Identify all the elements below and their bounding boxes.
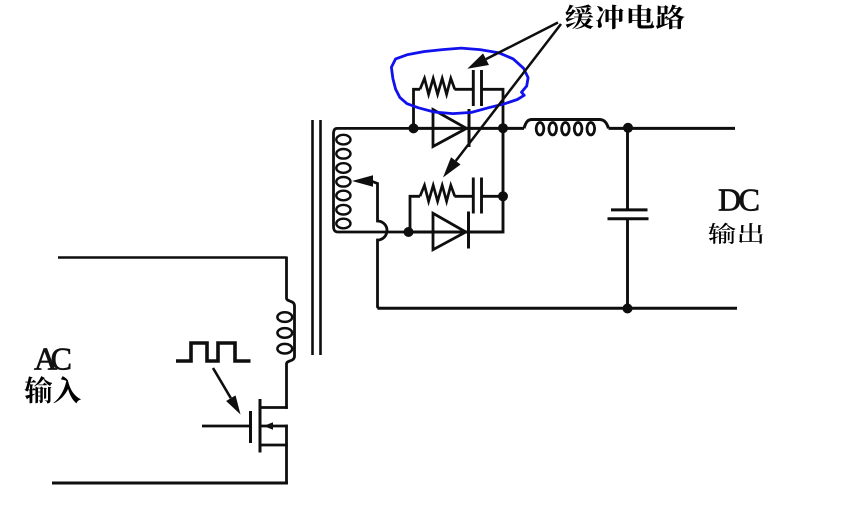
transistor Q1 source lead [261,444,288,447]
transformer core [311,120,314,355]
capacitor C3 [626,128,629,209]
inductor L1 [524,120,609,129]
transistor Q1 drain lead [261,406,288,409]
resistor R1 [420,78,455,94]
node top-left [409,123,419,133]
transformer secondary winding [334,128,414,232]
snubber1 branch wire [414,89,504,129]
wire AC top [58,256,287,259]
arrow from pulse to MOSFET gate [226,395,240,414]
arrow to snubber 2 [443,157,461,177]
node L1 out [623,123,633,133]
node bottom [623,304,633,314]
diode D2 [433,213,466,249]
transformer primary winding [287,257,295,409]
node snubber2 right [498,191,508,201]
wire source down to bottom rail [285,425,288,485]
svg-text:AC: AC [34,341,72,377]
diode D1 [433,110,467,147]
wire bottom rail [378,307,738,310]
secondary center tap arrow [352,175,373,186]
wire center tap down with hop over secondary lead [371,181,387,308]
svg-text:DC: DC [718,181,760,217]
arrow to snubber 1 [467,53,489,68]
wire top rail right [609,127,736,130]
blue hand-drawn loop around snubber 1 [391,48,528,114]
text shuchu (output) [708,223,735,244]
resistor R2 [420,185,455,201]
transistor Q1 gate lead [202,425,249,428]
capacitor C2 [472,178,475,214]
transistor Q1 body lead with arrow [261,425,288,428]
capacitor C1 [472,70,475,106]
snubber2 branch wire [410,196,502,233]
text huanchong dianlu (snubber circuit) [565,4,593,29]
wire top rail [414,127,525,130]
wire right vertical [502,128,505,233]
wire AC bottom [52,482,288,485]
node snubber2 left [404,227,414,237]
wire secondary lower rail [409,231,504,234]
text shuru (input) [25,376,53,403]
pulse waveform symbol [176,343,251,361]
node top-right [498,123,508,133]
transistor Q1 channel bar [259,399,262,453]
transistor Q1 gate bar [249,411,252,443]
